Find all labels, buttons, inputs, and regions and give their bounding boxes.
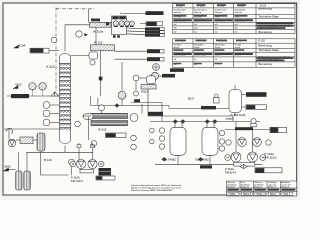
label box under W115	[106, 133, 127, 138]
svg-text:4104-: 4104-	[19, 44, 27, 48]
manifold line to vessel	[169, 107, 229, 109]
small valve on line	[115, 103, 120, 107]
manifold line	[225, 129, 270, 131]
blower riser	[121, 62, 123, 91]
label box	[255, 168, 282, 173]
svg-text:bar: bar	[215, 30, 218, 33]
motor A	[225, 155, 231, 161]
vacuum unit boundary	[112, 16, 127, 35]
feed pump B	[39, 83, 46, 90]
feed label box	[11, 94, 29, 98]
pump P114A	[231, 152, 241, 162]
check valve B	[91, 145, 95, 148]
left small instruments	[150, 128, 155, 133]
svg-text:Vakuum: Vakuum	[174, 12, 182, 14]
ejector 2	[119, 21, 124, 26]
arrow blob on inlet	[106, 23, 109, 26]
dark text on line	[235, 127, 253, 130]
overhead line	[65, 25, 90, 52]
svg-text:4102: 4102	[15, 83, 22, 87]
bottoms header	[27, 151, 94, 153]
svg-text:5001: 5001	[230, 192, 236, 196]
svg-text:002 1: 002 1	[284, 192, 291, 196]
flag bottom left	[4, 168, 9, 171]
svg-text:4103: 4103	[4, 165, 11, 169]
small circle	[134, 91, 139, 96]
vent line 3	[126, 34, 145, 35]
svg-text:Anlage 21: Anlage 21	[227, 186, 235, 189]
tank B	[202, 127, 218, 155]
svg-text:Bemerkung: Bemerkung	[259, 30, 273, 34]
dark label F110	[99, 168, 112, 172]
instrument sq	[214, 98, 220, 104]
stream label v1	[145, 27, 160, 30]
exchanger W114	[91, 114, 128, 119]
tank nozzles	[174, 123, 176, 128]
distillate line 2	[115, 58, 148, 60]
risers	[8, 129, 10, 140]
vent line 1	[126, 27, 145, 30]
tank A instruments	[159, 128, 164, 133]
interconnect	[95, 27, 97, 45]
svg-text:W 110: W 110	[94, 41, 103, 45]
line feed W114	[82, 115, 91, 117]
condenser W110	[91, 45, 115, 51]
tank outlet valve B	[198, 157, 203, 161]
dark bits below vacuum box	[113, 35, 116, 38]
battery limit vertical dash-dot	[55, 8, 57, 92]
valve t2	[180, 119, 185, 124]
valve under	[240, 165, 247, 169]
condenser W110a	[90, 22, 112, 27]
feed line	[7, 95, 60, 97]
svg-text:FW 115\2: FW 115\2	[265, 156, 277, 160]
instrument above	[99, 105, 105, 111]
filter risers	[18, 152, 20, 171]
baseplate	[80, 169, 94, 173]
label right of B114 dark	[246, 92, 267, 97]
motor M B	[98, 161, 104, 167]
distillate label 1	[147, 49, 160, 53]
svg-text:bar: bar	[194, 30, 197, 33]
bottom header	[155, 164, 262, 166]
B114 top nozzle	[234, 85, 236, 90]
feed down to condenser	[88, 9, 90, 23]
filters B116	[16, 171, 23, 190]
leader	[140, 23, 146, 25]
lines	[135, 81, 137, 91]
svg-text:2x B117A+B: 2x B117A+B	[230, 113, 246, 117]
top dark label	[91, 19, 100, 22]
valve row circles	[238, 138, 247, 147]
title block	[227, 181, 297, 196]
exchanger W115	[91, 120, 128, 125]
vessel B112	[147, 76, 156, 84]
valve t4	[212, 119, 217, 124]
reflux drum	[89, 52, 98, 59]
leader lines	[242, 94, 247, 96]
top stream line	[120, 12, 146, 14]
svg-text:B 120: B 120	[259, 40, 266, 43]
leader from label	[49, 50, 59, 52]
svg-text:FW114 A: FW114 A	[225, 171, 236, 175]
pump P114B	[248, 152, 258, 162]
right riser	[141, 104, 143, 114]
feed pump A	[29, 83, 36, 90]
svg-text:Benennung: Benennung	[259, 43, 273, 47]
instrument	[69, 159, 75, 165]
instrument circle lower-left	[91, 141, 97, 147]
small label	[200, 165, 212, 168]
bottoms line	[4, 128, 60, 130]
dark box	[134, 99, 140, 102]
ejector 4	[129, 21, 134, 26]
border frame	[3, 3, 297, 195]
tank A	[170, 127, 186, 155]
off-page flag 4102	[14, 86, 19, 89]
svg-text:B 116: B 116	[44, 158, 52, 162]
baseplate	[234, 162, 255, 166]
svg-text:B117: B117	[188, 97, 195, 101]
loop symbol	[6, 128, 12, 133]
check valve A	[77, 145, 81, 148]
pump P110A	[76, 159, 85, 168]
pump P110B	[88, 159, 97, 168]
label box	[96, 176, 115, 180]
svg-text:W 110a: W 110a	[93, 30, 103, 34]
riser 2	[252, 122, 254, 153]
svg-text:Kerze: Kerze	[174, 46, 180, 49]
suction lines	[78, 148, 80, 160]
equipment table 2	[173, 39, 296, 68]
valve t3	[205, 119, 210, 124]
svg-text:W 115: W 115	[98, 128, 107, 132]
stream box top1	[146, 22, 163, 26]
instrument circle cross	[153, 64, 160, 71]
vent line 2	[126, 30, 145, 33]
instrument PI	[43, 119, 50, 126]
tank manifold	[150, 121, 260, 123]
long line y116	[148, 115, 233, 117]
svg-text:5021.1: 5021.1	[257, 192, 266, 196]
svg-text:5021: 5021	[270, 192, 276, 196]
stream label v3	[145, 34, 160, 37]
arrow into exchanger	[84, 33, 88, 36]
hatched circle	[151, 72, 158, 79]
off-page flag 4104	[14, 45, 19, 48]
svg-text:Anlage 21: Anlage 21	[241, 186, 249, 189]
motor B	[260, 155, 266, 161]
instrument	[133, 75, 139, 81]
svg-text:K 110: K 110	[47, 65, 55, 69]
instrument TI	[43, 110, 50, 117]
equipment table 1	[173, 4, 296, 34]
dark cap 1	[112, 16, 118, 19]
doc number blob	[170, 68, 184, 72]
svg-text:W113: W113	[141, 90, 149, 94]
instrument left edge	[75, 121, 81, 127]
ejector 3	[125, 21, 130, 26]
instrument LI	[43, 102, 50, 109]
label right of B114 boxed	[246, 105, 267, 110]
circles right mid	[131, 135, 137, 141]
vessel B114	[229, 90, 242, 113]
feed valve	[51, 92, 59, 96]
svg-text:Vakuum: Vakuum	[194, 12, 202, 14]
manifold label dark	[201, 106, 216, 109]
instrument right of W114	[130, 114, 138, 122]
column bottom outlet	[64, 146, 66, 153]
top stream label	[146, 11, 164, 15]
svg-text:Stand der Planung "BASIC ENG: Stand der Planung "BASIC ENGINEERING"	[131, 189, 173, 192]
tank B instruments	[219, 130, 224, 135]
ejector 1	[113, 21, 118, 26]
svg-text:Kerze: Kerze	[215, 46, 221, 49]
svg-text:Kerze: Kerze	[194, 46, 200, 49]
small vessel left	[84, 114, 94, 119]
svg-text:Vakuum: Vakuum	[215, 12, 223, 14]
svg-text:Technische Daten: Technische Daten	[259, 48, 280, 52]
svg-text:Anlage 21: Anlage 21	[268, 186, 276, 189]
bottoms pump	[8, 139, 16, 147]
tank outlets	[177, 155, 179, 164]
motor M A	[70, 161, 76, 167]
line right	[159, 75, 171, 77]
reflux line	[100, 50, 102, 96]
filter F110	[37, 133, 45, 151]
riser 1	[235, 122, 237, 153]
label box right	[270, 127, 287, 132]
column trays	[60, 64, 71, 130]
small label	[162, 74, 175, 78]
svg-text:Anlage 21: Anlage 21	[281, 186, 289, 189]
svg-text:bar: bar	[235, 30, 238, 33]
drum to column line	[71, 55, 90, 57]
valve t1	[173, 119, 178, 124]
svg-text:Kerze: Kerze	[235, 46, 241, 49]
distillate label 2	[147, 57, 160, 61]
stream label v2	[145, 31, 160, 34]
svg-text:Technische Daten: Technische Daten	[259, 15, 280, 19]
pump A drop	[32, 90, 34, 96]
blower V110	[118, 91, 126, 99]
drain line	[40, 152, 42, 175]
label box Einsatz	[30, 48, 49, 53]
pump B drop	[42, 90, 44, 96]
dark cap 2	[119, 16, 126, 19]
tank outlet valve A	[162, 157, 167, 161]
svg-text:bar: bar	[174, 30, 177, 33]
distillate line 1	[115, 50, 148, 52]
exchanger W113	[141, 85, 156, 90]
exchanger W116	[20, 137, 33, 144]
svg-text:5001.2: 5001.2	[243, 192, 252, 196]
battery limit horizontal dash-dot	[56, 8, 95, 10]
svg-text:Anlage 21: Anlage 21	[254, 186, 262, 189]
instrument left	[76, 31, 82, 37]
svg-text:Benennung: Benennung	[259, 7, 273, 11]
instrument under drum	[90, 60, 95, 65]
svg-text:Bemerkung: Bemerkung	[259, 62, 273, 66]
condenser to vacuum line	[110, 24, 113, 26]
label on it	[148, 112, 163, 116]
reflux valve	[99, 77, 103, 81]
svg-text:Vakuum: Vakuum	[235, 12, 243, 14]
instrument bubble on limit line	[51, 37, 57, 43]
ejector bases	[114, 25, 134, 27]
left riser	[88, 117, 90, 141]
line B114 down	[234, 113, 236, 117]
instrument + box	[251, 118, 256, 123]
svg-text:FW 110 A: FW 110 A	[71, 179, 83, 183]
column K110 body	[60, 53, 71, 144]
